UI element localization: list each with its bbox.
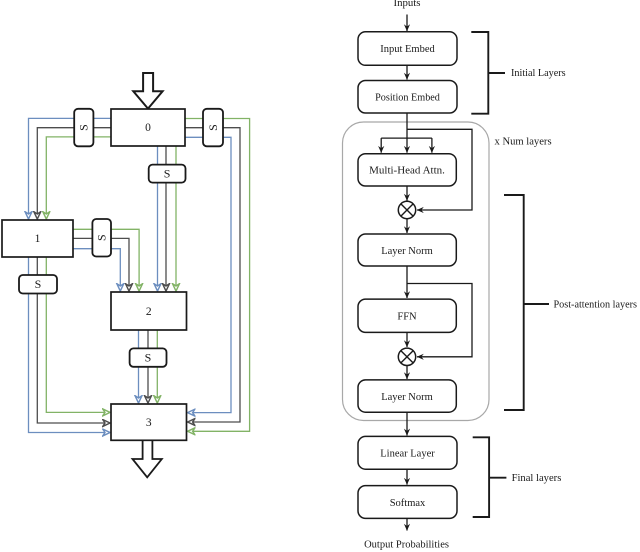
svg-text:S: S (35, 277, 42, 291)
block Position Embed (358, 81, 457, 114)
svg-text:Post-attention layers: Post-attention layers (554, 299, 638, 310)
big output arrow below box3 (133, 440, 162, 477)
svg-text:Output Probabilities: Output Probabilities (364, 540, 449, 551)
switch S right of box1 (92, 219, 111, 257)
wire green box0-left to box1-top (46, 137, 111, 219)
add node 1 (circle with X) (398, 201, 415, 218)
svg-text:Final layers: Final layers (512, 473, 562, 484)
svg-text:S: S (77, 124, 91, 131)
block Layer Norm 2 (358, 380, 456, 412)
arrow Inputs to Input Embed (406, 15, 408, 32)
svg-text:Input Embed: Input Embed (380, 44, 435, 55)
wire gray box0-left to box1-top (37, 128, 111, 219)
arrow Layer Norm 2 to Linear Layer (406, 412, 408, 435)
switch S below box2 (130, 348, 167, 366)
wire gray box2-bottom to box3-top (147, 330, 149, 403)
arrow Linear Layer to Softmax (406, 469, 408, 484)
svg-text:S: S (164, 167, 171, 181)
arrow add1 to Layer Norm 1 (406, 219, 408, 233)
block Layer Norm 1 (358, 234, 456, 266)
node box 2 (111, 292, 187, 330)
wire green box0-bottom to box2-top (175, 146, 177, 291)
svg-text:S: S (206, 124, 220, 131)
svg-text:Layer Norm: Layer Norm (381, 392, 433, 403)
wire green box1-bottom to box3-left (46, 257, 110, 412)
switch S right of box0 (203, 109, 223, 147)
wire gray box0-right to box3-right (185, 128, 240, 422)
svg-text:S: S (95, 234, 109, 241)
container repeated layers (343, 122, 490, 421)
svg-text:3: 3 (146, 417, 152, 429)
main line Layer Norm 1 to FFN (406, 266, 408, 298)
wire gray box0-bottom to box2-top (165, 146, 167, 291)
bracket Initial Layers (471, 32, 565, 114)
svg-text:Position Embed: Position Embed (375, 92, 440, 103)
three-way split into Multi-Head Attn (381, 138, 432, 153)
switch S left of box0 (74, 109, 93, 147)
wire blue box0-right to box3-right (185, 137, 231, 412)
svg-text:Inputs: Inputs (394, 0, 421, 9)
wire green box0-right to box3-right (185, 119, 250, 432)
block FFN (358, 299, 456, 332)
residual branch 1 (407, 129, 472, 210)
block Multi-Head Attn (358, 154, 456, 186)
svg-text:x Num layers: x Num layers (495, 137, 552, 148)
bracket Post-attention layers (504, 195, 637, 410)
wire green box1-right to box2-top (73, 229, 139, 291)
label Inputs (394, 0, 421, 9)
bracket Final layers (473, 437, 562, 517)
wire gray box1-bottom to box3-left (37, 257, 110, 423)
svg-text:2: 2 (146, 306, 152, 318)
arrow Multi-Head Attn to add1 (406, 186, 408, 201)
arrow add2 to Layer Norm 2 (406, 366, 408, 380)
svg-text:S: S (145, 351, 152, 365)
node box 0 (111, 109, 185, 146)
wire blue box0-bottom to box2-top (157, 146, 159, 291)
residual branch 2 (407, 284, 472, 357)
arrow Softmax to output (406, 518, 408, 530)
svg-text:Linear Layer: Linear Layer (380, 449, 435, 460)
node box 3 (111, 404, 187, 440)
wire blue box2-bottom to box3-top (138, 330, 140, 403)
svg-text:Softmax: Softmax (390, 498, 426, 509)
node box 1 (2, 220, 73, 257)
switch S below box1 (19, 275, 57, 294)
svg-text:FFN: FFN (397, 312, 417, 323)
add node 2 (circle with X) (398, 348, 415, 365)
wire blue box0-left to box1-top (29, 118, 112, 219)
svg-text:Multi-Head Attn.: Multi-Head Attn. (369, 165, 445, 177)
arrow FFN to add2 (406, 332, 408, 347)
wire green box2-bottom to box3-top (156, 330, 158, 403)
label Output Probabilities (364, 540, 449, 551)
main line Position Embed into container (406, 113, 408, 138)
svg-text:Initial Layers: Initial Layers (511, 68, 566, 79)
svg-text:Layer Norm: Layer Norm (381, 246, 433, 257)
big input arrow into box0 (133, 73, 162, 109)
svg-text:0: 0 (145, 122, 151, 134)
label x Num layers (495, 137, 552, 148)
switch S below box0 (149, 165, 186, 183)
block Softmax (358, 486, 457, 519)
block Input Embed (358, 32, 457, 66)
arrow Input Embed to Position Embed (406, 65, 408, 79)
wire blue box1-right to box2-top (73, 249, 120, 291)
svg-text:1: 1 (35, 233, 41, 245)
wire gray box1-right to box2-top (73, 238, 129, 291)
block Linear Layer (358, 436, 457, 469)
wire blue box1-bottom to box3-left (29, 257, 111, 433)
